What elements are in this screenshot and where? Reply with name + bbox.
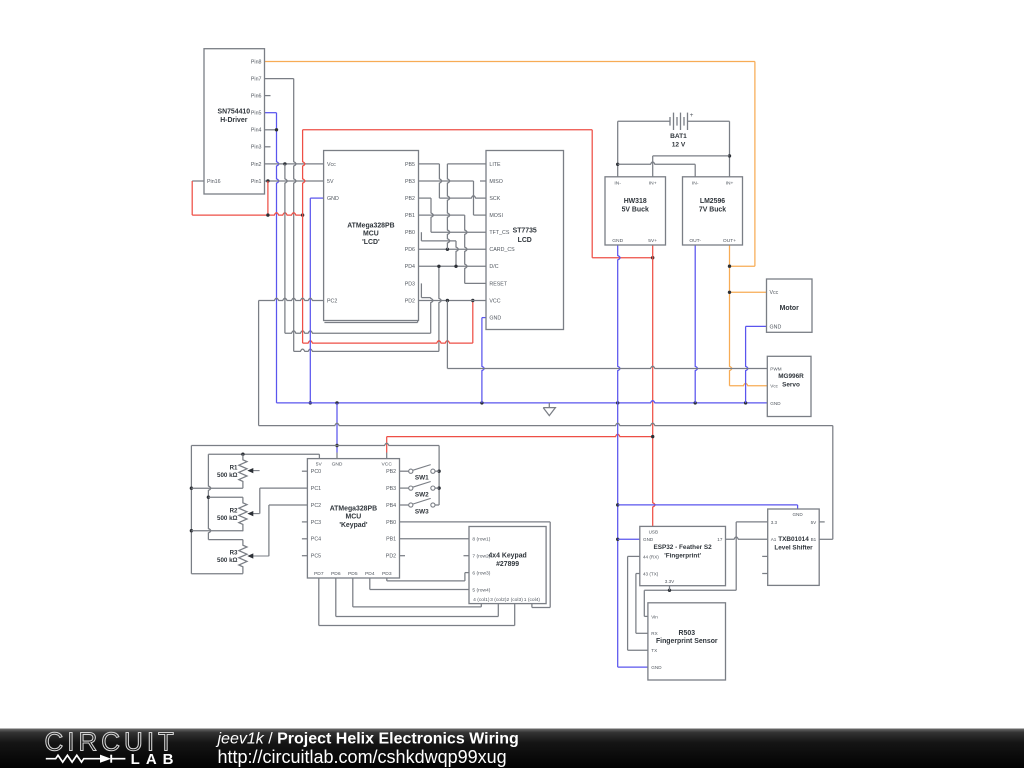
wire ST7735 GND blue — [482, 318, 486, 403]
svg-text:RX: RX — [651, 631, 657, 636]
svg-text:PD6: PD6 — [331, 571, 341, 577]
switch SW1 — [400, 465, 440, 482]
wire PD7 to keypad col3 — [319, 578, 515, 626]
svg-text:500 kΩ: 500 kΩ — [217, 515, 237, 522]
svg-text:Vcc: Vcc — [770, 384, 778, 389]
svg-text:PD3: PD3 — [405, 281, 415, 287]
svg-text:SW1: SW1 — [415, 475, 429, 482]
wire PC2 to level shifter B1 — [259, 298, 833, 539]
svg-text:BAT1: BAT1 — [670, 133, 687, 140]
svg-text:MOSI: MOSI — [489, 213, 503, 219]
svg-text:Pin7: Pin7 — [251, 77, 262, 83]
svg-text:PC1: PC1 — [311, 486, 321, 492]
wire under-block jumper — [324, 321, 417, 323]
pin stub PC0 — [302, 470, 308, 472]
wire HW318 GND blue to ESP32/R503 — [616, 245, 648, 667]
svg-text:PB4: PB4 — [386, 503, 396, 509]
svg-text:5V+: 5V+ — [648, 238, 657, 244]
wire VCC to servo PWM — [447, 301, 767, 369]
wire keypad MCU GND blue — [335, 403, 338, 459]
svg-text:PC3: PC3 — [311, 520, 321, 526]
battery BAT1 12V — [670, 112, 694, 148]
wire battery positive to IN+ — [653, 121, 732, 177]
svg-text:Motor: Motor — [780, 305, 799, 312]
pin stub Pin6 — [265, 95, 271, 97]
svg-text:A1: A1 — [771, 537, 777, 542]
svg-text:PC4: PC4 — [311, 537, 321, 543]
pin stub TXB A2 — [762, 555, 768, 557]
wire PD3 to keypad row3 — [387, 573, 469, 581]
svg-text:500 kΩ: 500 kΩ — [217, 557, 237, 564]
svg-text:Pin8: Pin8 — [251, 59, 262, 65]
svg-text:PWM: PWM — [770, 366, 781, 371]
svg-text:IN-: IN- — [692, 181, 699, 187]
module U8 TXB01014 Level Shifter — [768, 509, 820, 585]
svg-text:Pin3: Pin3 — [251, 145, 262, 151]
svg-text:44 (RX): 44 (RX) — [643, 554, 659, 559]
svg-text:6 (row3): 6 (row3) — [472, 571, 490, 577]
svg-text:ATMega328PB: ATMega328PB — [347, 222, 394, 229]
svg-text:LITE: LITE — [489, 162, 501, 168]
wire PB0 to keypad col4 — [400, 522, 551, 608]
svg-text:GND: GND — [489, 316, 501, 322]
module 4x4 Keypad 27899 — [469, 527, 546, 604]
svg-text:IN+: IN+ — [726, 181, 734, 187]
wire Pin16 red 5V return — [192, 181, 304, 217]
svg-text:'LCD': 'LCD' — [362, 239, 380, 246]
svg-text:PB0: PB0 — [386, 520, 396, 526]
wire PB1 to keypad row1 — [400, 538, 470, 540]
svg-text:Level Shifter: Level Shifter — [774, 545, 813, 552]
svg-text:2 (col3): 2 (col3) — [507, 597, 524, 603]
svg-text:3.3V: 3.3V — [665, 579, 675, 584]
svg-text:RESET: RESET — [489, 281, 507, 287]
wire LITE pull — [447, 164, 486, 249]
svg-text:ESP32 - Feather S2: ESP32 - Feather S2 — [653, 544, 712, 551]
svg-text:PD7: PD7 — [314, 571, 324, 577]
svg-text:PD3: PD3 — [382, 571, 392, 577]
svg-text:PB2: PB2 — [386, 469, 396, 475]
wire red 5V rail top — [303, 130, 655, 343]
wire Pin5/Pin4 blue to GND rail — [265, 113, 279, 403]
svg-text:GND: GND — [327, 196, 339, 202]
svg-text:5V Buck: 5V Buck — [622, 206, 649, 213]
svg-text:PB3: PB3 — [405, 179, 415, 185]
wire ESP32 17 to A1 — [726, 537, 768, 539]
wire Pin1 to 5V — [265, 179, 324, 182]
svg-text:TX: TX — [651, 648, 657, 653]
module U7 ESP32 Feather S2 — [640, 526, 726, 585]
svg-text:ATMega328PB: ATMega328PB — [330, 505, 377, 512]
svg-text:Fingerprint Sensor: Fingerprint Sensor — [656, 638, 718, 645]
svg-text:LCD: LCD — [518, 237, 532, 244]
svg-text:500 kΩ: 500 kΩ — [217, 472, 237, 479]
wire Pin8 to LM2596 OUT+ (orange 7V net) — [265, 62, 768, 386]
wire pot GND rail — [190, 443, 439, 574]
svg-text:R1: R1 — [230, 464, 238, 471]
svg-text:#27899: #27899 — [496, 561, 519, 568]
svg-text:MG996R: MG996R — [778, 373, 804, 380]
svg-text:Pin1: Pin1 — [251, 179, 262, 185]
wire red 5V drop to keypad VCC and ESP32 USB — [387, 245, 655, 526]
svg-text:LM2596: LM2596 — [700, 198, 725, 205]
wire PD6 to keypad col2 — [336, 578, 499, 617]
svg-text:GND: GND — [792, 512, 803, 517]
pin stub Pin3 — [265, 146, 271, 148]
svg-text:R2: R2 — [230, 507, 238, 514]
svg-text:Vcc: Vcc — [770, 290, 779, 296]
svg-text:CARD_CS: CARD_CS — [489, 247, 515, 253]
wire Motor GND blue — [746, 326, 767, 403]
svg-text:PC0: PC0 — [311, 469, 321, 475]
svg-text:MCU: MCU — [363, 231, 379, 238]
svg-text:5 (row4): 5 (row4) — [472, 587, 490, 593]
svg-text:Pin6: Pin6 — [251, 94, 262, 100]
wire LCD MCU GND blue — [309, 198, 324, 404]
wire PB2 to TFT_CS — [418, 198, 486, 232]
pin stub PC5 — [302, 555, 308, 557]
wire PB3 to MOSI — [418, 181, 486, 215]
svg-text:Vcc: Vcc — [327, 162, 336, 168]
wire 3.3V net — [644, 522, 767, 617]
svg-text:MCU: MCU — [346, 514, 362, 521]
wire LM2596 OUT- blue — [695, 245, 697, 403]
svg-text:SN754410: SN754410 — [218, 109, 251, 116]
svg-text:IN+: IN+ — [649, 181, 657, 187]
potentiometer R2 500k — [217, 497, 260, 531]
svg-text:PD5: PD5 — [348, 571, 358, 577]
wire battery negative to IN- — [616, 121, 695, 177]
footer CircuitLab bar — [0, 727, 1024, 768]
wire ESP32 RX to R503 TX — [628, 556, 648, 650]
svg-text:H-Driver: H-Driver — [220, 117, 248, 124]
pin stub MISO — [480, 180, 486, 182]
svg-text:LAB: LAB — [131, 751, 180, 768]
svg-text:PC2: PC2 — [327, 298, 337, 304]
svg-text:7V Buck: 7V Buck — [699, 206, 726, 213]
IC U2 ATMega328PB MCU LCD — [324, 151, 419, 321]
svg-text:R3: R3 — [230, 550, 238, 557]
pin stub TXB A3 — [762, 573, 768, 575]
wire R2 wiper to PC1 — [260, 488, 308, 513]
svg-text:Vin: Vin — [651, 614, 658, 619]
wire Pin2 to Vcc — [265, 162, 324, 165]
svg-text:PB1: PB1 — [386, 537, 396, 543]
svg-text:SCK: SCK — [489, 196, 500, 202]
svg-text:4x4 Keypad: 4x4 Keypad — [488, 553, 526, 560]
wire PD4 to D/C — [418, 265, 486, 268]
svg-text:PC5: PC5 — [311, 554, 321, 560]
svg-text:12 V: 12 V — [672, 141, 686, 148]
motor M1 — [767, 279, 813, 332]
svg-text:+: + — [690, 112, 694, 119]
svg-text:17: 17 — [717, 537, 723, 542]
svg-text:GND: GND — [643, 537, 654, 542]
svg-text:GND: GND — [332, 461, 343, 467]
wire Vcc branch via x=284.9 to PD3 — [285, 164, 433, 333]
switch SW2 — [400, 482, 440, 499]
svg-text:PB2: PB2 — [405, 196, 415, 202]
svg-text:PD4: PD4 — [405, 264, 415, 270]
svg-text:GND: GND — [651, 665, 662, 670]
svg-text:Pin2: Pin2 — [251, 162, 262, 168]
svg-text:5V: 5V — [316, 461, 323, 467]
svg-text:HW318: HW318 — [624, 198, 647, 205]
svg-text:GND: GND — [770, 401, 781, 406]
IC U6 ATMega328PB MCU Keypad — [307, 459, 399, 578]
svg-text:'Keypad': 'Keypad' — [339, 522, 368, 529]
svg-text:Servo: Servo — [782, 381, 800, 388]
svg-text:ST7735: ST7735 — [513, 228, 537, 235]
wire R3 wiper to PC2 — [269, 505, 308, 556]
servo MG996R — [767, 356, 811, 416]
svg-text:D/C: D/C — [489, 264, 498, 270]
wire PB0 to D/C net — [421, 232, 458, 266]
potentiometer R3 500k — [217, 540, 269, 574]
svg-text:MISO: MISO — [489, 179, 503, 185]
switch SW3 — [400, 498, 440, 515]
svg-text:GND: GND — [770, 324, 782, 330]
module U4 HW318 5V Buck — [605, 177, 666, 245]
svg-text:SW3: SW3 — [415, 508, 429, 515]
svg-text:PB1: PB1 — [405, 213, 415, 219]
svg-text:SW2: SW2 — [415, 491, 429, 498]
svg-text:TFT_CS: TFT_CS — [489, 230, 509, 236]
wire TXB GND blue — [618, 505, 798, 509]
svg-text:PB3: PB3 — [386, 486, 396, 492]
svg-text:Pin5: Pin5 — [251, 111, 262, 117]
wire Pin7 to PD4/DC net — [265, 79, 442, 352]
svg-text:PD2: PD2 — [405, 298, 415, 304]
wire blue GND rail — [277, 401, 768, 405]
svg-text:jeev1k / Project Helix Electro: jeev1k / Project Helix Electronics Wirin… — [216, 731, 519, 748]
svg-text:3.3: 3.3 — [771, 520, 778, 525]
svg-text:VCC: VCC — [382, 461, 393, 467]
IC U1 SN754410 H-Driver — [204, 49, 265, 194]
svg-text:IN-: IN- — [614, 181, 621, 187]
pin stub PC3 — [302, 521, 308, 523]
svg-text:PC2: PC2 — [311, 503, 321, 509]
svg-text:PD4: PD4 — [365, 571, 375, 577]
wire PD5 to keypad col1 — [353, 578, 482, 607]
wire switch common rail — [437, 446, 440, 506]
wire PD4 to keypad row4 — [370, 578, 469, 590]
svg-text:PB5: PB5 — [405, 162, 415, 168]
svg-text:Pin16: Pin16 — [207, 179, 221, 185]
svg-text:VCC: VCC — [489, 298, 500, 304]
svg-text:1 (col4): 1 (col4) — [524, 597, 541, 603]
svg-text:OUT-: OUT- — [689, 238, 701, 244]
svg-text:PB0: PB0 — [405, 230, 415, 236]
svg-text:PD2: PD2 — [386, 554, 396, 560]
svg-text:3 (col2): 3 (col2) — [490, 597, 507, 603]
svg-text:R503: R503 — [679, 630, 696, 637]
wire PD6 to CARD_CS — [418, 248, 486, 251]
ground — [543, 403, 555, 416]
pin stub TXB 5V — [819, 521, 825, 523]
wire PB5 to SCK — [418, 164, 486, 198]
svg-text:B1: B1 — [811, 537, 817, 542]
svg-text:OUT+: OUT+ — [723, 238, 736, 244]
potentiometer R1 500k — [217, 454, 260, 488]
pin stub keypad row2 — [464, 555, 470, 557]
svg-text:4 (col1): 4 (col1) — [473, 597, 490, 603]
svg-text:GND: GND — [612, 238, 623, 244]
wire ESP32 TX to R503 RX — [636, 574, 648, 634]
module U5 LM2596 7V Buck — [683, 177, 743, 245]
pin stub PD2 keypad — [400, 555, 406, 557]
svg-text:PD6: PD6 — [405, 247, 415, 253]
pin stub PC4 — [302, 538, 308, 540]
svg-text:5V: 5V — [327, 179, 334, 185]
wire pot 5V feed — [207, 453, 320, 540]
svg-text:8 (row1): 8 (row1) — [472, 537, 490, 543]
wire PD2 to VCC — [418, 299, 486, 302]
svg-text:TXB01014: TXB01014 — [778, 536, 809, 543]
svg-text:USB: USB — [649, 530, 658, 535]
svg-text:Pin4: Pin4 — [251, 128, 262, 134]
svg-text:5V: 5V — [811, 520, 818, 525]
IC U3 ST7735 LCD — [486, 151, 564, 330]
svg-text:'Fingerprint': 'Fingerprint' — [664, 552, 701, 559]
svg-text:43 (TX): 43 (TX) — [643, 571, 659, 576]
module U9 R503 Fingerprint Sensor — [648, 603, 726, 680]
wire PB1 to RESET — [418, 215, 486, 283]
svg-text:7 (row2): 7 (row2) — [472, 554, 490, 560]
svg-text:http://circuitlab.com/cshkdwqp: http://circuitlab.com/cshkdwqp99xug — [218, 747, 507, 767]
